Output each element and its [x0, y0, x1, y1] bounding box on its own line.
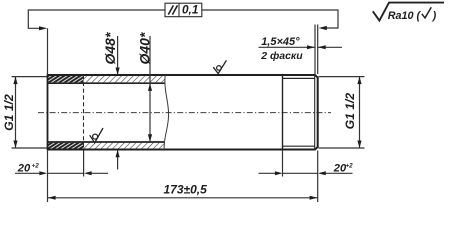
dia40 dim line: [149, 36, 151, 142]
dia48 arrow top: [116, 68, 120, 76]
left G dim extension top: [12, 76, 48, 78]
extension chamfer line up: [314, 25, 316, 75]
left G arrow bottom: [13, 141, 17, 149]
leader left arrow: [39, 26, 47, 30]
left 20 dim tail right: [92, 172, 109, 174]
dia40 arrow top: [148, 83, 152, 91]
extension right face up: [317, 25, 319, 75]
left face extension down: [47, 151, 49, 203]
thread end line right: [282, 75, 284, 150]
svg-text:): ): [432, 10, 437, 22]
dia40 arrow bottom: [148, 134, 152, 142]
right G arrow top: [357, 77, 361, 85]
chamfer edge line right: [314, 75, 316, 150]
right 20 arrow right: [318, 171, 326, 175]
svg-text:Ø48*: Ø48*: [102, 32, 118, 64]
svg-text:G1 1/2: G1 1/2: [343, 93, 357, 130]
svg-text:1,5×45°: 1,5×45°: [261, 36, 300, 48]
left 20 arrow left: [39, 171, 47, 175]
left G dim extension bottom: [12, 147, 48, 149]
right face extension down: [317, 151, 319, 203]
dia48 dim line upper: [117, 36, 119, 75]
173 arrow left: [48, 196, 56, 200]
part outline bottom edge: [48, 147, 318, 149]
extension line left face up: [47, 28, 49, 74]
right G dim line: [359, 77, 361, 148]
svg-text:+2: +2: [32, 163, 40, 170]
right G dim extension top: [319, 76, 365, 78]
right 20 arrow left: [275, 171, 283, 175]
173 arrow right: [310, 196, 318, 200]
svg-text:+2: +2: [345, 163, 353, 170]
thread root line right top: [283, 77, 315, 79]
chamfer dim right tail: [318, 46, 342, 48]
svg-text:2 фаски: 2 фаски: [260, 50, 303, 62]
svg-text:Ø40*: Ø40*: [137, 32, 153, 64]
thread boundary extension down: [83, 151, 85, 177]
chamfer dim left arrow: [307, 45, 315, 49]
right end face: [317, 77, 319, 148]
svg-text:G1 1/2: G1 1/2: [2, 94, 16, 131]
right 20 dim middle: [283, 172, 318, 174]
left 20 dim tail left: [15, 172, 40, 174]
hatch main zone bottom band: [84, 143, 165, 149]
right 20 dim tail left: [259, 172, 276, 174]
centerline: [38, 112, 331, 114]
Ra10 radical: [373, 3, 444, 21]
bore line bottom: [48, 141, 165, 143]
chamfer dim right arrow: [318, 45, 326, 49]
right G dim extension bottom: [319, 147, 365, 149]
part outline top edge: [48, 75, 318, 77]
left G arrow top: [13, 77, 17, 85]
parallelism frame: [165, 3, 202, 17]
svg-text:173±0,5: 173±0,5: [164, 183, 208, 197]
left G dim line: [15, 77, 17, 148]
right 20 dim tail right: [326, 172, 353, 174]
wavy break line: [164, 75, 168, 150]
leader right from frame: [202, 10, 338, 28]
hatch thread zone bottom band: [48, 143, 84, 149]
svg-text:20: 20: [17, 162, 31, 174]
left 20 dim middle: [48, 172, 84, 174]
hatch main zone top band: [84, 76, 166, 83]
leader right arrow: [319, 26, 327, 30]
dia48 arrow bottom: [116, 150, 120, 158]
left end face: [47, 74, 49, 150]
svg-text:0,1: 0,1: [182, 3, 198, 17]
bore line top: [48, 82, 166, 84]
hatch thread zone top band: [48, 76, 84, 83]
dia48 dim line lower: [117, 150, 119, 170]
dashed thread boundary left: [83, 75, 85, 150]
173 dim line: [48, 197, 318, 199]
thread root line right bottom: [283, 145, 315, 147]
left 20 arrow right: [84, 171, 92, 175]
leader left from frame: [28, 10, 165, 28]
chamfer dim shelf line: [259, 46, 316, 48]
surface symbol bore: [90, 128, 103, 143]
thread end extension down right: [282, 151, 284, 177]
right G arrow bottom: [357, 141, 361, 149]
svg-text:Ra10 (: Ra10 (: [388, 10, 422, 22]
surface symbol top: [213, 60, 226, 73]
